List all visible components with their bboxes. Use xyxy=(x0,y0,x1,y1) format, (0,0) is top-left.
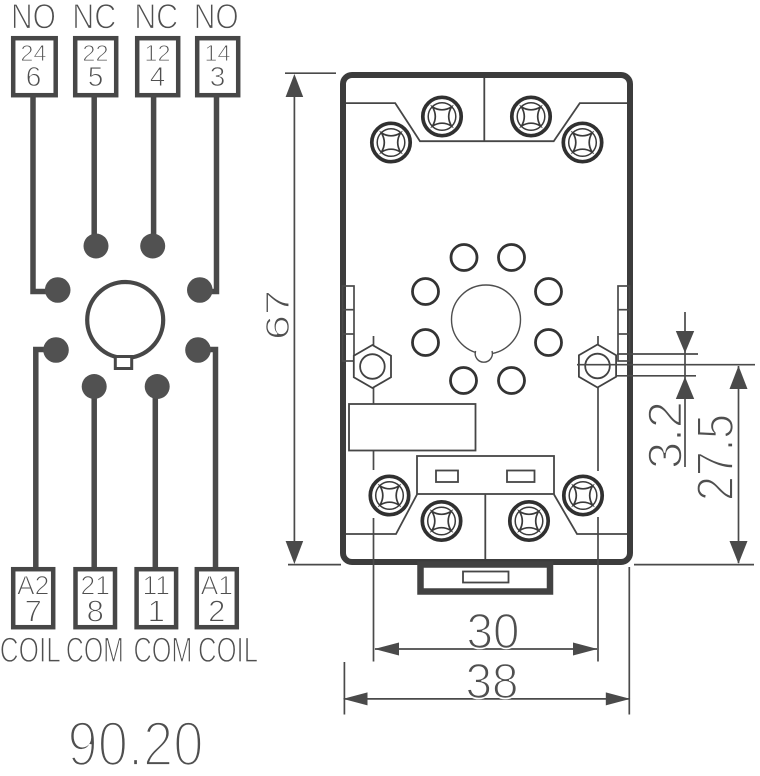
svg-text:5: 5 xyxy=(88,61,104,92)
dim 67 line xyxy=(293,95,295,542)
svg-text:30: 30 xyxy=(467,605,520,659)
left wall clip strip xyxy=(343,286,355,361)
dim 30 arrow right xyxy=(573,643,598,656)
svg-text:2: 2 xyxy=(208,594,225,629)
dim 3.2 arrow down xyxy=(676,331,694,353)
terminal box A2/7 xyxy=(13,569,53,627)
svg-text:8: 8 xyxy=(87,594,104,629)
dim 27.5 arrow down xyxy=(730,541,748,564)
jumper housing rectangle xyxy=(417,456,554,494)
dim 3.2 arrow up xyxy=(676,377,694,399)
terminal box 24/6 xyxy=(13,38,56,95)
svg-text:3: 3 xyxy=(210,61,226,92)
screw bottom outer-right xyxy=(564,476,602,514)
right wall clip strip xyxy=(618,286,630,361)
mounting line right xyxy=(597,336,599,662)
top terminal recess outline xyxy=(346,103,627,141)
dim 67 arrow up xyxy=(286,74,304,97)
svg-text:NO: NO xyxy=(11,0,56,36)
right mounting hex nut xyxy=(579,345,616,388)
terminal box 22/5 xyxy=(75,38,116,95)
svg-text:6: 6 xyxy=(26,61,42,92)
dim 27.5 hole-center extension xyxy=(577,364,755,366)
dim 3.2 line xyxy=(684,312,686,467)
svg-text:3.2: 3.2 xyxy=(640,401,693,469)
screw bottom inner-left xyxy=(422,502,460,540)
terminal box 14/3 xyxy=(197,38,238,95)
svg-text:NC: NC xyxy=(134,0,178,36)
dim 38 line xyxy=(344,698,631,700)
dim 67 arrow down xyxy=(286,541,304,564)
DIN rail foot xyxy=(421,565,551,592)
terminal box 21/8 xyxy=(76,569,116,627)
screw top outer-left xyxy=(372,123,410,161)
wire from pin 2 to box A1/2 xyxy=(194,350,216,570)
wire from pin 1 to box 11/1 xyxy=(153,386,159,569)
left mounting hex nut xyxy=(354,345,391,388)
dim 27.5 arrow up xyxy=(730,366,748,389)
screw top inner-left xyxy=(423,97,461,135)
svg-text:COM: COM xyxy=(66,630,124,670)
screw bottom outer-left xyxy=(370,476,408,514)
svg-text:NO: NO xyxy=(194,0,239,36)
dim 27.5 bottom extension xyxy=(634,564,754,566)
relay outline circle xyxy=(87,282,163,358)
svg-text:COM: COM xyxy=(134,630,193,670)
dim 38 arrow left xyxy=(343,692,368,705)
DIN foot slot xyxy=(463,572,509,583)
contact hole 8 xyxy=(499,368,525,394)
dim 67 extension line bottom xyxy=(288,564,341,566)
dim 38 extension right xyxy=(628,567,630,715)
pin dot 3 xyxy=(187,277,213,303)
bottom center parting line xyxy=(484,494,486,559)
pin dot 2 xyxy=(185,337,211,363)
screw bottom inner-right xyxy=(510,502,548,540)
contact hole 1 xyxy=(451,245,477,271)
jumper slot right xyxy=(507,471,535,483)
dim 38 arrow right xyxy=(606,692,631,705)
wire from box 22/5 to pin 5 xyxy=(91,95,97,244)
contact hole 5 xyxy=(413,330,439,356)
contact hole 7 xyxy=(451,368,477,394)
dim 3.2 extension upper xyxy=(617,353,698,355)
svg-text:COIL: COIL xyxy=(0,630,61,670)
svg-text:27.5: 27.5 xyxy=(687,414,745,501)
svg-text:1: 1 xyxy=(148,594,165,629)
pin dot 6 xyxy=(45,277,71,303)
pin dot 5 xyxy=(84,234,109,259)
top center parting line xyxy=(483,78,485,141)
pin dot 8 xyxy=(82,374,107,399)
label plate rectangle xyxy=(349,404,476,451)
contact hole 4 xyxy=(536,279,562,305)
contact hole 2 xyxy=(499,245,525,271)
pin dot 4 xyxy=(140,234,165,259)
svg-text:90.20: 90.20 xyxy=(68,710,204,776)
svg-text:38: 38 xyxy=(466,655,519,709)
bottom terminal recess outline left xyxy=(346,495,417,535)
screw top outer-right xyxy=(563,123,601,161)
dim 30 arrow left xyxy=(374,643,399,656)
mounting line left xyxy=(373,336,375,662)
dim 30 line xyxy=(375,648,597,650)
terminal box A1/2 xyxy=(197,569,237,627)
wire from box 12/4 to pin 4 xyxy=(151,95,157,244)
wire from box 24/6 to pin 6 xyxy=(33,95,52,292)
terminal box 12/4 xyxy=(137,38,178,95)
svg-text:7: 7 xyxy=(25,594,42,629)
pin dot 1 xyxy=(145,374,170,399)
svg-text:67: 67 xyxy=(259,290,296,340)
screw top inner-right xyxy=(512,97,550,135)
dim 3.2 extension lower xyxy=(617,375,696,377)
central relay recess circle xyxy=(452,285,521,354)
wire from box 14/3 to pin 3 xyxy=(200,95,217,292)
dim 67 extension line top xyxy=(285,72,336,74)
svg-text:COIL: COIL xyxy=(198,630,258,670)
keyway notch on central circle xyxy=(475,344,492,361)
keyway square on relay circle xyxy=(115,357,131,369)
dim 38 extension left xyxy=(343,662,345,715)
wire from pin 8 to box 21/8 xyxy=(91,386,97,569)
contact hole 6 xyxy=(536,330,562,356)
pin dot 7 xyxy=(43,337,69,363)
wire from pin 7 to box A2/7 xyxy=(36,350,60,570)
jumper slot left xyxy=(436,471,458,483)
svg-text:NC: NC xyxy=(72,0,116,36)
socket body outline xyxy=(343,75,630,562)
dim 27.5 line xyxy=(738,366,740,563)
bottom terminal recess outline right xyxy=(554,495,627,535)
terminal box 11/1 xyxy=(137,569,177,627)
svg-text:4: 4 xyxy=(150,61,166,92)
contact hole 3 xyxy=(413,279,439,305)
